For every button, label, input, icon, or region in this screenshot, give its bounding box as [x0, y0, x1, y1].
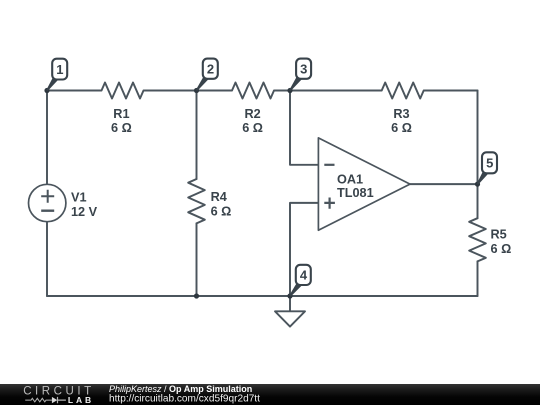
svg-text:6 Ω: 6 Ω	[391, 121, 412, 135]
node 2 dot	[194, 88, 199, 93]
svg-text:V1: V1	[71, 191, 87, 205]
svg-text:R5: R5	[491, 228, 507, 242]
svg-text:OA1: OA1	[337, 173, 363, 187]
svg-text:R3: R3	[393, 107, 409, 121]
node 4 flag	[289, 265, 311, 297]
wire node 3 down and right to op-amp inverting input	[290, 91, 318, 165]
svg-text:TL081: TL081	[337, 186, 374, 200]
junction dot R4 bottom	[194, 293, 199, 298]
op-amp inverting input minus symbol	[324, 164, 334, 166]
wire R4 bottom to bottom rail	[196, 223, 198, 296]
wire op-amp output to node 5	[410, 183, 478, 185]
svg-text:6 Ω: 6 Ω	[111, 121, 132, 135]
wire node 5 down to R5	[477, 184, 479, 218]
svg-text:R4: R4	[211, 190, 227, 204]
resistor R3 between node 3 and right corner	[290, 83, 478, 99]
svg-text:6 Ω: 6 Ω	[242, 121, 263, 135]
svg-text:2: 2	[207, 62, 214, 77]
logo diode	[52, 397, 57, 403]
svg-text:1: 1	[56, 62, 63, 77]
op-amp non-inverting input plus symbol	[324, 198, 335, 209]
op-amp OA1 triangle	[318, 138, 410, 230]
voltage source V1 circle	[29, 184, 66, 221]
wire right rail top corner down to node 5	[477, 91, 479, 185]
svg-text:R1: R1	[113, 107, 129, 121]
svg-text:5: 5	[486, 156, 493, 171]
V1 plus symbol	[41, 190, 54, 203]
ground symbol triangle	[275, 311, 305, 326]
resistor R1 (wire node 1 to node 2)	[47, 83, 197, 99]
resistor R5 vertical zigzag	[469, 218, 486, 261]
node 3 flag	[289, 59, 311, 91]
resistor R4 vertical zigzag	[188, 179, 205, 223]
svg-text:R2: R2	[244, 107, 260, 121]
resistor R2 between node 2 and node 3	[197, 83, 291, 99]
node 1 dot	[44, 88, 49, 93]
svg-text:4: 4	[300, 268, 308, 283]
svg-text:http://circuitlab.com/cxd5f9qr: http://circuitlab.com/cxd5f9qr2d7tt	[109, 393, 260, 404]
wire left rail from node 1 down to V1 top	[46, 91, 48, 185]
svg-text:3: 3	[300, 62, 307, 77]
wire V1 bottom to bottom-left corner	[46, 222, 48, 296]
node 5 dot	[475, 182, 480, 187]
wire R5 bottom to bottom rail	[477, 261, 479, 296]
wire bottom rail	[47, 295, 478, 297]
node 3 dot	[287, 88, 292, 93]
node 1 flag	[46, 59, 67, 91]
wire op-amp non-inverting input left and down to node 4	[290, 203, 318, 296]
V1 minus symbol	[41, 209, 54, 211]
svg-text:12 V: 12 V	[71, 205, 98, 219]
node 4 dot	[287, 293, 292, 298]
wire node 2 down to R4	[196, 91, 198, 180]
node 2 flag	[196, 59, 218, 91]
wire ground stub below node 4	[289, 296, 291, 311]
CircuitLab logo resistor-diode squiggle	[25, 398, 52, 402]
svg-text:6 Ω: 6 Ω	[491, 242, 512, 256]
svg-text:LAB: LAB	[68, 395, 94, 405]
svg-text:6 Ω: 6 Ω	[211, 204, 232, 218]
node 5 flag	[477, 152, 497, 184]
